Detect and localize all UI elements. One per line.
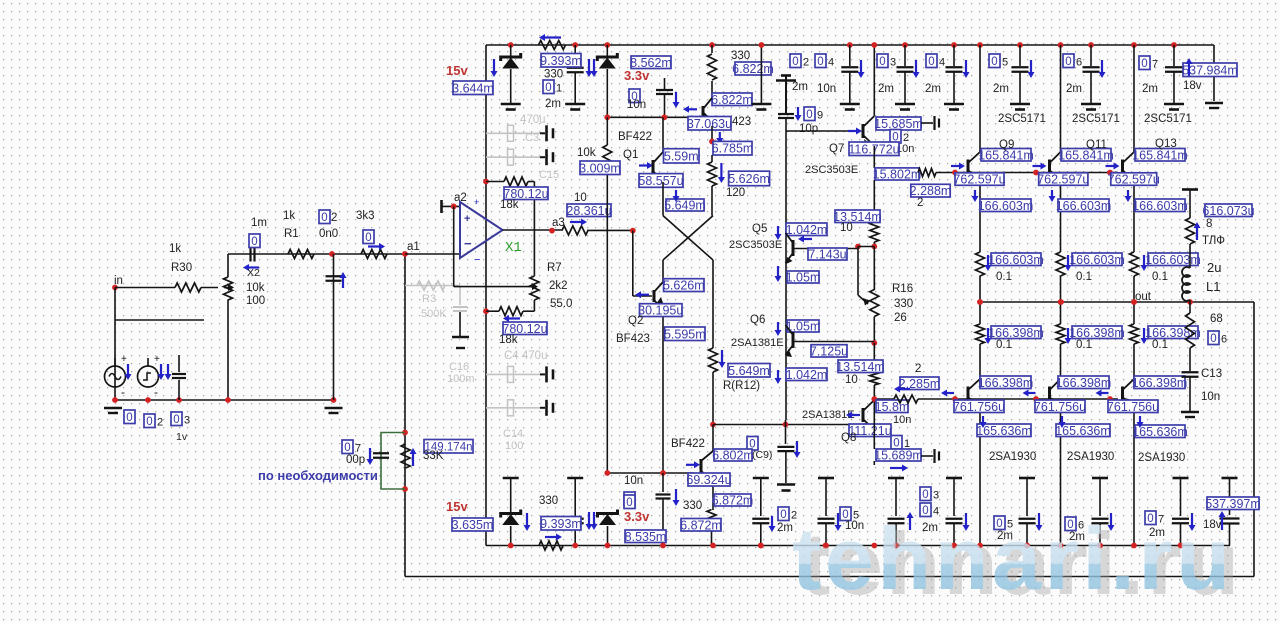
svg-text:2: 2: [915, 363, 921, 375]
svg-text:330: 330: [894, 298, 913, 310]
svg-text:5: 5: [1002, 57, 1008, 69]
svg-text:−: −: [464, 236, 472, 251]
svg-text:0: 0: [1210, 333, 1216, 345]
svg-text:10n: 10n: [627, 99, 646, 111]
svg-text:3: 3: [890, 57, 896, 69]
svg-text:330: 330: [683, 500, 702, 512]
svg-text:68: 68: [1210, 313, 1223, 325]
svg-text:Q1: Q1: [623, 149, 638, 161]
svg-text:166.603m: 166.603m: [1145, 253, 1201, 267]
svg-text:10k: 10k: [246, 282, 265, 294]
svg-text:0: 0: [146, 416, 152, 428]
svg-text:0: 0: [344, 442, 350, 454]
svg-text:7: 7: [355, 443, 361, 455]
svg-text:2: 2: [157, 417, 163, 429]
svg-text:0.1: 0.1: [1152, 339, 1168, 351]
svg-text:tehnari.ru: tehnari.ru: [792, 509, 1230, 608]
svg-text:423: 423: [732, 116, 751, 128]
svg-text:7.143u: 7.143u: [808, 248, 846, 262]
svg-text:2SC5171: 2SC5171: [1072, 113, 1120, 125]
svg-text:616.073u: 616.073u: [1202, 204, 1254, 218]
svg-text:3.635m: 3.635m: [452, 518, 494, 532]
svg-text:8.535m: 8.535m: [625, 530, 667, 544]
svg-text:C3: C3: [525, 132, 539, 144]
svg-text:0.1: 0.1: [996, 339, 1012, 351]
svg-text:Q9: Q9: [999, 139, 1014, 151]
svg-text:33K: 33K: [423, 450, 444, 462]
svg-text:0: 0: [879, 56, 885, 68]
svg-text:+: +: [121, 354, 127, 365]
svg-text:1.042m: 1.042m: [786, 223, 828, 237]
svg-text:5.626m: 5.626m: [728, 172, 770, 186]
svg-text:X1: X1: [505, 240, 522, 256]
svg-text:2m: 2m: [792, 81, 808, 93]
svg-text:165.636m: 165.636m: [1055, 424, 1111, 438]
svg-text:2m: 2m: [777, 522, 793, 534]
svg-text:55.0: 55.0: [550, 298, 572, 310]
svg-text:3.3v: 3.3v: [624, 68, 650, 83]
svg-text:C16: C16: [449, 361, 469, 373]
svg-text:2SA1930: 2SA1930: [1067, 451, 1114, 463]
svg-text:Q6: Q6: [750, 314, 765, 326]
svg-text:166.603m: 166.603m: [1132, 199, 1188, 213]
svg-text:R30: R30: [171, 262, 192, 274]
svg-text:762.597u: 762.597u: [1037, 173, 1089, 187]
svg-text:1.05m: 1.05m: [786, 271, 821, 285]
svg-text:762.597u: 762.597u: [953, 173, 1005, 187]
svg-text:0: 0: [991, 56, 997, 68]
svg-text:2SC5171: 2SC5171: [998, 113, 1046, 125]
svg-text:0: 0: [928, 56, 934, 68]
svg-text:15.8m: 15.8m: [875, 400, 910, 414]
svg-text:Q7: Q7: [829, 143, 844, 155]
svg-text:BF422: BF422: [618, 131, 652, 143]
svg-text:6.822m: 6.822m: [711, 93, 753, 107]
svg-text:166.398m: 166.398m: [1056, 376, 1112, 390]
svg-text:0: 0: [1065, 56, 1071, 68]
svg-text:18k: 18k: [500, 199, 519, 211]
svg-text:10n: 10n: [817, 83, 836, 95]
svg-text:7.125u: 7.125u: [810, 344, 848, 358]
svg-text:C4 470u: C4 470u: [504, 350, 547, 362]
svg-text:166.603m: 166.603m: [1056, 199, 1112, 213]
svg-text:18v: 18v: [1183, 80, 1202, 92]
svg-text:0: 0: [806, 109, 812, 121]
svg-text:a1: a1: [407, 241, 420, 253]
svg-text:0.1: 0.1: [1076, 271, 1092, 283]
svg-text:10: 10: [840, 222, 853, 234]
svg-text:out: out: [1135, 291, 1152, 303]
svg-text:+: +: [464, 213, 470, 225]
svg-text:761.756u: 761.756u: [1034, 400, 1086, 414]
svg-text:Q2: Q2: [628, 315, 643, 327]
svg-text:BF422: BF422: [671, 438, 705, 450]
svg-text:5.649m: 5.649m: [664, 199, 706, 213]
svg-text:10n: 10n: [1201, 391, 1220, 403]
svg-text:2SC3503E: 2SC3503E: [805, 164, 858, 176]
svg-text:5.626m: 5.626m: [663, 279, 705, 293]
svg-text:330: 330: [544, 69, 563, 81]
svg-text:500K: 500K: [421, 308, 447, 320]
svg-text:0: 0: [922, 489, 928, 501]
svg-text:R(R12): R(R12): [723, 380, 760, 392]
svg-text:9: 9: [817, 110, 823, 122]
svg-text:+: +: [154, 354, 160, 365]
svg-text:8: 8: [1206, 218, 1212, 230]
svg-text:5.595m: 5.595m: [664, 327, 706, 341]
svg-text:1v: 1v: [176, 431, 188, 443]
svg-text:0: 0: [1141, 58, 1147, 70]
svg-text:10p: 10p: [799, 123, 818, 135]
svg-text:2m: 2m: [925, 83, 941, 95]
svg-text:+: +: [474, 197, 479, 207]
svg-text:5.649m: 5.649m: [728, 364, 770, 378]
svg-text:0: 0: [126, 412, 132, 424]
svg-text:166.398m: 166.398m: [978, 376, 1034, 390]
svg-text:0.1: 0.1: [1076, 339, 1092, 351]
svg-text:2m: 2m: [993, 83, 1009, 95]
svg-text:1.042m: 1.042m: [786, 368, 828, 382]
svg-text:по необходимости: по необходимости: [258, 468, 378, 483]
svg-text:Q5: Q5: [752, 223, 767, 235]
svg-text:6: 6: [1076, 57, 1082, 69]
svg-text:0.1: 0.1: [996, 271, 1012, 283]
svg-text:6.822m: 6.822m: [732, 62, 774, 76]
svg-text:28.361u: 28.361u: [566, 204, 611, 218]
svg-text:C13: C13: [1201, 368, 1222, 380]
svg-text:2m: 2m: [878, 83, 894, 95]
svg-text:00p: 00p: [346, 454, 365, 466]
svg-text:100m: 100m: [447, 373, 475, 385]
svg-text:2m: 2m: [1066, 83, 1082, 95]
svg-text:C15: C15: [539, 169, 559, 181]
svg-text:18k: 18k: [499, 334, 518, 346]
svg-text:15.802m: 15.802m: [873, 167, 922, 181]
svg-text:10n: 10n: [624, 475, 643, 487]
svg-text:2SC5171: 2SC5171: [1144, 113, 1192, 125]
svg-text:2: 2: [331, 212, 337, 224]
svg-text:761.756u: 761.756u: [953, 400, 1005, 414]
svg-text:2: 2: [803, 57, 809, 69]
svg-text:330: 330: [731, 50, 750, 62]
svg-text:4: 4: [828, 57, 834, 69]
svg-text:2SC3503E: 2SC3503E: [729, 239, 782, 251]
svg-text:0: 0: [626, 497, 632, 509]
svg-text:ТЛФ: ТЛФ: [1202, 235, 1225, 247]
svg-text:2k2: 2k2: [549, 280, 568, 292]
svg-text:3k3: 3k3: [356, 210, 375, 222]
svg-text:2m: 2m: [545, 98, 561, 110]
svg-text:3: 3: [933, 490, 939, 502]
svg-text:3.644m: 3.644m: [452, 81, 494, 95]
svg-text:6.872m: 6.872m: [680, 518, 722, 532]
svg-text:9.393m: 9.393m: [540, 54, 582, 68]
svg-text:0: 0: [817, 56, 823, 68]
svg-text:-: -: [121, 385, 125, 399]
svg-text:100: 100: [246, 295, 265, 307]
svg-text:2: 2: [917, 197, 923, 209]
svg-text:5.59m: 5.59m: [664, 149, 699, 163]
svg-text:58.557u: 58.557u: [638, 174, 683, 188]
svg-text:3.3v: 3.3v: [624, 509, 650, 524]
svg-text:166.603m: 166.603m: [978, 199, 1034, 213]
svg-text:L1: L1: [1206, 279, 1220, 294]
svg-text:30.195u: 30.195u: [638, 304, 683, 318]
svg-text:15v: 15v: [446, 499, 468, 514]
svg-text:R16: R16: [892, 283, 913, 295]
svg-text:69.324u: 69.324u: [686, 473, 731, 487]
svg-text:6.872m: 6.872m: [712, 494, 754, 508]
svg-text:537.984m: 537.984m: [1182, 63, 1238, 77]
svg-text:1m: 1m: [251, 217, 267, 229]
svg-text:9.393m: 9.393m: [540, 517, 582, 531]
svg-text:0: 0: [545, 82, 551, 94]
svg-text:762.597u: 762.597u: [1108, 173, 1160, 187]
svg-text:100: 100: [505, 440, 523, 452]
svg-text:0: 0: [792, 56, 798, 68]
svg-text:15.689m: 15.689m: [874, 449, 923, 463]
svg-text:X2: X2: [247, 267, 260, 279]
svg-text:13.514m: 13.514m: [836, 360, 885, 374]
svg-text:0: 0: [365, 232, 371, 244]
svg-text:37.063u: 37.063u: [687, 117, 732, 131]
svg-text:0n0: 0n0: [319, 228, 338, 240]
svg-text:0: 0: [173, 414, 179, 426]
svg-text:0: 0: [251, 236, 257, 248]
svg-text:R3: R3: [422, 293, 436, 305]
svg-text:2u: 2u: [1207, 260, 1221, 275]
svg-text:R7: R7: [547, 262, 562, 274]
svg-text:2SA1930: 2SA1930: [989, 451, 1036, 463]
svg-text:166.398m: 166.398m: [1132, 376, 1188, 390]
svg-text:2.288m: 2.288m: [910, 184, 952, 198]
svg-text:165.841m: 165.841m: [1132, 148, 1188, 162]
svg-text:761.756u: 761.756u: [1107, 400, 1159, 414]
svg-text:3: 3: [184, 415, 190, 427]
svg-text:-: -: [154, 385, 158, 399]
svg-text:330: 330: [539, 495, 558, 507]
svg-text:6.785m: 6.785m: [712, 142, 754, 156]
svg-text:166.603m: 166.603m: [1069, 253, 1125, 267]
svg-text:120: 120: [726, 187, 745, 199]
svg-text:(C9): (C9): [752, 449, 772, 461]
svg-text:6: 6: [1221, 334, 1227, 346]
svg-text:6.802m: 6.802m: [712, 449, 754, 463]
svg-text:0: 0: [321, 212, 327, 224]
svg-text:1k: 1k: [169, 243, 181, 255]
svg-text:166.603m: 166.603m: [988, 253, 1044, 267]
svg-text:Q11: Q11: [1086, 139, 1107, 151]
svg-text:166.398m: 166.398m: [988, 326, 1044, 340]
svg-text:10n: 10n: [893, 414, 911, 426]
svg-text:C14: C14: [503, 428, 523, 440]
svg-text:10k: 10k: [577, 147, 596, 159]
svg-text:470u: 470u: [520, 114, 546, 126]
svg-text:10: 10: [574, 192, 587, 204]
svg-text:2SA1381E: 2SA1381E: [731, 337, 784, 349]
svg-text:2SA1930: 2SA1930: [1138, 452, 1185, 464]
svg-text:1: 1: [556, 83, 562, 95]
svg-text:BF423: BF423: [616, 333, 650, 345]
svg-text:4: 4: [939, 57, 945, 69]
svg-text:3.009m: 3.009m: [579, 161, 621, 175]
svg-text:2m: 2m: [1142, 83, 1158, 95]
svg-text:15v: 15v: [446, 63, 468, 78]
svg-text:1k: 1k: [283, 210, 295, 222]
svg-text:26: 26: [894, 312, 907, 324]
svg-text:165.636m: 165.636m: [976, 424, 1032, 438]
svg-text:7: 7: [1152, 59, 1158, 71]
svg-text:Q13: Q13: [1155, 138, 1177, 150]
svg-text:Q8: Q8: [841, 432, 856, 444]
svg-text:−: −: [474, 254, 480, 266]
svg-text:166.398m: 166.398m: [1069, 326, 1125, 340]
svg-text:0: 0: [780, 509, 786, 521]
svg-text:R1: R1: [284, 228, 299, 240]
svg-text:10: 10: [845, 374, 858, 386]
svg-text:0.1: 0.1: [1152, 271, 1168, 283]
